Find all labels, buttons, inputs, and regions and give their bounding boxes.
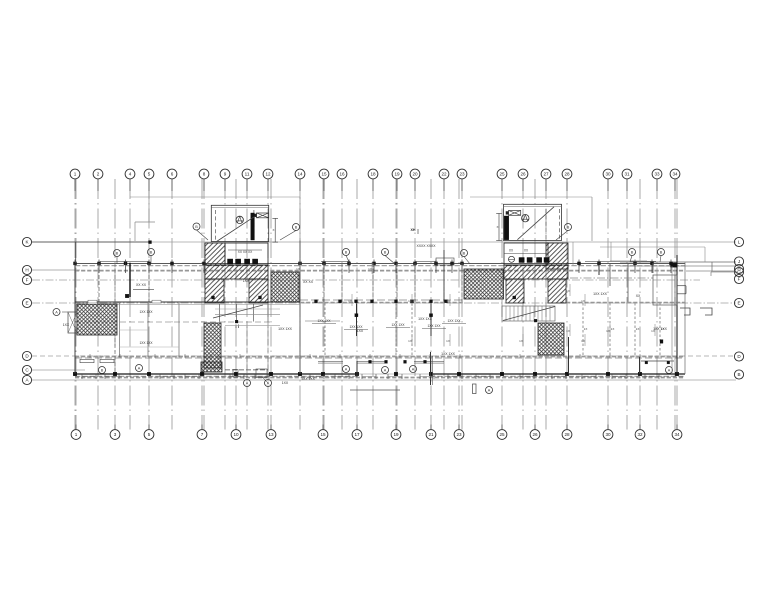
svg-text:34: 34 [672,172,678,177]
svg-text:1: 1 [75,432,78,437]
svg-text:1X: 1X [446,299,450,303]
svg-text:1XX 1XX: 1XX 1XX [350,325,364,329]
svg-text:1X: 1X [368,267,372,271]
svg-text:1XX: 1XX [282,381,289,385]
svg-text:1X: 1X [636,327,640,331]
svg-text:1X: 1X [581,299,585,303]
svg-text:A: A [384,368,387,372]
svg-text:B: B [295,225,298,229]
svg-text:X: X [272,228,274,232]
svg-text:L: L [738,240,741,245]
svg-text:14: 14 [297,172,303,177]
svg-text:G: G [737,270,741,275]
svg-text:1XX 1XX: 1XX 1XX [140,310,154,314]
svg-text:B: B [384,250,387,254]
svg-text:A: A [345,367,348,371]
svg-text:XXXX XXXX: XXXX XXXX [416,244,436,248]
svg-text:25: 25 [499,172,505,177]
svg-text:5: 5 [148,432,151,437]
svg-text:1XX 1XX: 1XX 1XX [392,323,406,327]
svg-text:26: 26 [520,172,526,177]
svg-text:27: 27 [543,172,549,177]
svg-text:32: 32 [637,432,643,437]
svg-text:13: 13 [268,432,274,437]
svg-text:1X: 1X [651,329,655,333]
svg-text:8: 8 [203,172,206,177]
svg-text:1XX: 1XX [243,279,250,283]
svg-text:E: E [737,301,740,306]
svg-text:1X: 1X [566,289,570,293]
svg-text:B: B [737,372,740,377]
svg-text:6: 6 [171,172,174,177]
svg-text:1XX 1XX: 1XX 1XX [593,292,607,296]
svg-text:18: 18 [370,172,376,177]
svg-text:23: 23 [456,432,462,437]
svg-text:1XX 1XX: 1XX 1XX [428,324,442,328]
svg-text:1X: 1X [296,267,300,271]
svg-text:B: B [567,225,570,229]
svg-text:F: F [26,278,29,283]
svg-text:4: 4 [129,172,132,177]
svg-text:J: J [738,259,740,264]
svg-text:XX XX: XX XX [136,283,147,287]
svg-text:1XX: 1XX [63,323,70,327]
svg-text:31: 31 [624,172,630,177]
svg-text:15: 15 [320,432,326,437]
svg-text:1X: 1X [348,299,352,303]
svg-text:X: X [496,225,498,229]
svg-text:H: H [25,268,28,273]
svg-text:B: B [195,225,198,229]
svg-text:1XX 1XX: 1XX 1XX [318,319,332,323]
svg-text:1X: 1X [446,339,450,343]
svg-text:B: B [631,250,634,254]
svg-text:2: 2 [97,172,100,177]
svg-text:1X: 1X [611,327,615,331]
svg-text:20: 20 [412,172,418,177]
svg-text:1XX 1XX: 1XX 1XX [301,377,315,381]
svg-text:17: 17 [354,432,360,437]
svg-text:1XX 1XX: 1XX 1XX [441,352,455,356]
svg-text:1XX 1XX: 1XX 1XX [140,341,154,345]
svg-text:10: 10 [233,432,239,437]
svg-text:33: 33 [654,172,660,177]
svg-text:1: 1 [74,172,77,177]
svg-text:15: 15 [321,172,327,177]
svg-text:34: 34 [674,432,680,437]
svg-text:1X: 1X [408,299,412,303]
svg-text:7: 7 [201,432,204,437]
svg-text:B: B [463,251,466,255]
svg-text:A: A [668,368,671,372]
svg-text:1X: 1X [606,329,610,333]
svg-text:19: 19 [394,172,400,177]
svg-text:1XX 1XX: 1XX 1XX [278,327,292,331]
svg-text:1X: 1X [408,339,412,343]
svg-text:5: 5 [148,172,151,177]
svg-text:26: 26 [532,432,538,437]
svg-text:3: 3 [114,432,117,437]
svg-text:XX XX XX: XX XX XX [238,250,253,254]
svg-text:1X: 1X [661,327,665,331]
svg-text:23: 23 [459,172,465,177]
svg-text:22: 22 [441,172,447,177]
svg-text:E: E [25,301,28,306]
svg-text:9: 9 [224,172,227,177]
svg-text:B: B [116,251,119,255]
svg-text:A: A [246,381,249,385]
svg-text:11: 11 [245,172,250,177]
svg-text:1XX 1XX: 1XX 1XX [448,319,462,323]
svg-text:XX XX: XX XX [303,280,314,284]
svg-text:B: B [660,250,663,254]
svg-text:30: 30 [605,432,611,437]
svg-text:A: A [138,366,141,370]
svg-text:21: 21 [428,432,434,437]
svg-text:B: B [345,250,348,254]
svg-text:12: 12 [265,172,271,177]
svg-text:A: A [488,388,491,392]
svg-text:28: 28 [564,172,570,177]
svg-text:1XX 1XX: 1XX 1XX [418,317,432,321]
svg-text:B: B [101,368,104,372]
svg-text:25: 25 [499,432,505,437]
svg-text:F: F [738,277,741,282]
svg-text:XX: XX [636,294,641,298]
svg-text:XH: XH [411,228,416,232]
svg-text:B: B [150,250,153,254]
svg-text:16: 16 [339,172,345,177]
svg-text:30: 30 [605,172,611,177]
svg-text:A: A [55,310,58,314]
svg-text:1X: 1X [566,329,570,333]
svg-text:A: A [412,367,415,371]
svg-text:19: 19 [393,432,399,437]
svg-text:1X: 1X [519,339,523,343]
svg-text:1X: 1X [584,327,588,331]
svg-text:28: 28 [564,432,570,437]
